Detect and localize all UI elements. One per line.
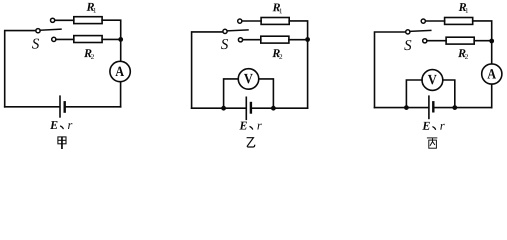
label r of battery (丙) [440, 124, 444, 130]
label R1 (乙) subscript 1 [280, 8, 283, 13]
battery E,r (丙) long plate [428, 96, 430, 118]
wire 丙 top branch left stub [425, 20, 444, 22]
wire 丙 top + left side [375, 32, 406, 108]
resistor R1 (甲) box [74, 17, 102, 24]
label S (乙) [221, 39, 228, 49]
wire 甲 bottom left segment [5, 106, 59, 108]
wire 丙 bottom branch left stub [427, 40, 446, 42]
resistor R2 (乙) box [261, 36, 289, 43]
wire 甲 right vertical lower ammeter to bottom [120, 82, 122, 107]
wire 乙 voltmeter right arm [259, 79, 274, 108]
voltmeter V (乙) circle [238, 69, 259, 90]
label 、 (乙) [250, 127, 253, 130]
switch S (乙) pivot [223, 29, 227, 33]
wire 甲 bottom branch left stub [56, 38, 74, 40]
label r of battery (甲) [68, 123, 72, 129]
junction 丙 branches meet [489, 39, 494, 44]
wire 乙 top + left side [192, 32, 223, 108]
label V of voltmeter (丙) [428, 75, 437, 85]
label R1 (甲) letter R [87, 3, 95, 11]
resistor R1 (丙) box [445, 18, 473, 25]
label r of battery (乙) [257, 124, 261, 130]
ammeter A (甲) circle [110, 61, 130, 81]
wire 丙 right vertical lower ammeter to bottom [491, 84, 493, 107]
switch S (丙) blade [410, 30, 431, 31]
node 乙 bottom branch terminal [238, 38, 242, 42]
ammeter A (丙) circle [482, 64, 502, 84]
wire 丙 voltmeter right arm [443, 80, 455, 108]
battery E,r (甲) short plate [63, 102, 65, 111]
label S (甲) [32, 39, 39, 49]
node 丙 bottom branch terminal [423, 39, 427, 43]
wire 丙 voltmeter left arm [406, 80, 422, 108]
resistor R2 (丙) box [446, 37, 474, 44]
wire 乙 bottom branch left stub [243, 39, 261, 41]
label R2 (甲) subscript 2 [91, 54, 94, 59]
label R2 (乙) letter R [272, 49, 280, 57]
label E of battery (乙) [239, 122, 247, 130]
wire 乙 top branch right + right vertical [289, 21, 307, 108]
junction 乙 voltmeter right node [271, 106, 276, 111]
wire 甲 bottom branch right stub [102, 38, 118, 40]
switch S (甲) blade [40, 29, 61, 30]
resistor R2 (甲) box [74, 36, 102, 43]
wire 乙 voltmeter left arm [224, 79, 239, 108]
wire 丙 bottom right segment [434, 107, 491, 109]
label 丙 hanzi [427, 138, 437, 148]
battery E,r (乙) long plate [245, 97, 247, 119]
label A of ammeter (甲) [115, 67, 124, 76]
battery E,r (甲) long plate [59, 96, 61, 117]
label 、 (丙) [433, 127, 436, 130]
label R2 (乙) subscript 2 [279, 54, 282, 59]
wire 丙 bottom left segment [375, 107, 428, 109]
label V of voltmeter (乙) [244, 74, 253, 84]
label 乙 hanzi [247, 138, 255, 147]
wire 甲 bottom right segment [66, 106, 121, 108]
junction 乙 branches meet [305, 37, 310, 42]
label 甲 hanzi [58, 137, 66, 149]
label R2 (甲) letter R [84, 49, 92, 57]
node 甲 top branch terminal [51, 18, 55, 22]
label R1 (丙) subscript 1 [466, 8, 469, 13]
wire 丙 bottom branch right stub [474, 40, 489, 42]
switch S (甲) pivot [36, 29, 40, 33]
battery E,r (丙) short plate [432, 102, 434, 111]
label R1 (甲) subscript 1 [94, 8, 97, 13]
label S (丙) [404, 40, 411, 50]
wire 乙 top branch left stub [242, 20, 261, 22]
voltmeter V (丙) circle [422, 70, 443, 91]
label E of battery (甲) [50, 121, 58, 129]
junction 丙 voltmeter right node [452, 105, 457, 110]
node 丙 top branch terminal [421, 19, 425, 23]
wire 乙 bottom branch right stub [289, 39, 305, 41]
switch S (乙) blade [227, 30, 248, 31]
node 甲 bottom branch terminal [52, 37, 56, 41]
switch S (丙) pivot [406, 30, 410, 34]
label A of ammeter (丙) [487, 69, 496, 78]
wire 乙 bottom right segment [252, 107, 308, 109]
label R2 (丙) letter R [458, 49, 466, 57]
label 、 (甲) [61, 126, 64, 129]
node 乙 top branch terminal [238, 19, 242, 23]
battery E,r (乙) short plate [250, 103, 252, 113]
junction 乙 voltmeter left node [221, 106, 226, 111]
junction 丙 voltmeter left node [404, 105, 409, 110]
label R1 (乙) letter R [273, 3, 281, 11]
label E of battery (丙) [422, 122, 430, 130]
wire 丙 top branch right + right vertical upper [473, 21, 492, 64]
wire 甲 top + left side [5, 31, 36, 107]
resistor R1 (乙) box [261, 18, 289, 25]
label R2 (丙) subscript 2 [465, 54, 468, 59]
junction 甲 branches meet [118, 37, 123, 42]
label R1 (丙) letter R [459, 3, 467, 11]
wire 甲 top branch left stub [55, 19, 74, 21]
wire 甲 top branch right + right vertical upper [102, 20, 121, 61]
wire 乙 bottom left segment [192, 107, 246, 109]
